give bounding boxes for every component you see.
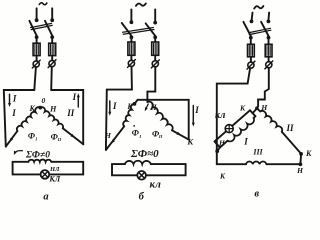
svg-text:б: б [139,192,145,203]
wire top left v [251,13,254,20]
switch S1 top contacts a [35,18,39,22]
switch S3 bottom contacts v [249,36,253,40]
node 0 junction dot a [38,106,42,110]
svg-text:II: II [285,123,294,133]
svg-text:I: I [72,92,77,102]
terminal clamp left b [128,60,134,66]
terminal clamp right b [152,61,158,67]
svg-text:Н: Н [296,166,304,175]
svg-text:I: I [34,137,37,142]
switch S3 blades v [243,22,250,36]
junction dot left v [215,149,219,153]
svg-text:II: II [66,108,75,118]
switch S3 crossbar v [249,28,271,32]
stub box to top vertex v [253,108,257,113]
switch S1 blades a [29,21,36,36]
wire to fuses v [250,38,252,45]
winding III coil v [246,162,266,165]
current arrow left b [109,101,111,113]
supply conductor left b [106,90,132,150]
wire K-II to H-III v [299,154,302,164]
switch S1 crossbar a [31,23,52,27]
svg-text:К: К [126,102,133,111]
winding II inner lead arrow b [145,104,148,110]
wire fuse to terminal b [130,55,132,60]
winding I lead a [6,131,18,147]
AC source symbol diagram a [39,3,47,5]
wire top right a [51,8,53,18]
svg-text:0: 0 [42,96,46,105]
control lamp KL b [137,171,146,180]
svg-text:I: I [112,101,117,111]
svg-text:К: К [305,149,312,158]
svg-text:кл: кл [215,110,225,121]
terminal clamp left a [33,61,39,67]
wire to fuses a [36,37,38,43]
svg-text:Н: Н [149,103,157,112]
switch S2 crossbar b [123,28,154,33]
secondary loop rectangle b [112,164,186,175]
switch S1 bottom contacts a [35,35,39,39]
fuse F1 v [248,44,255,57]
terminal clamp left v [248,62,254,68]
svg-text:I: I [138,134,141,139]
winding I lead b [106,126,124,150]
svg-text:а: а [43,192,48,203]
winding I coil v [228,118,254,142]
svg-text:К: К [239,104,246,113]
svg-text:I: I [243,136,248,146]
bottom conductor with winding III v [217,163,301,165]
terminal clamp right v [266,62,272,68]
svg-text:II: II [158,134,163,139]
switch S2 top contacts b [130,20,134,24]
wire to fuses b [130,37,132,42]
svg-text:К: К [186,137,194,147]
winding II coil a [40,107,63,128]
top vertex junction dot v [255,106,259,110]
wire fuse to terminal a [36,56,38,61]
winding II lead v [282,132,301,154]
switch S2 blades b [122,23,132,36]
control lamp KL a [41,170,50,179]
secondary pickup coil a [28,160,51,162]
winding II lead a [63,128,84,144]
secondary pickup coil b [125,161,151,164]
svg-text:ΣФ≈0: ΣФ≈0 [130,148,159,160]
winding II coil v [257,108,260,111]
flux arrow a [15,151,23,154]
wire terminal to H of winding I v [217,68,250,164]
svg-text:Н: Н [218,138,226,147]
wire terminal down right v [258,68,269,107]
current arrow right a [77,96,79,107]
wire top right v [268,13,271,20]
svg-text:К: К [28,104,35,113]
winding II coil b [147,102,172,131]
fuse F1 b [128,42,135,55]
svg-text:кл: кл [149,179,161,191]
junction dot K b [133,102,137,106]
supply loop conductor left a [4,90,35,147]
wire terminal down right b [147,67,155,102]
AC source symbol diagram v [254,6,263,9]
svg-text:Н: Н [49,105,57,114]
svg-text:II: II [57,137,62,142]
svg-text:в: в [254,189,259,200]
secondary loop rectangle a [13,162,84,175]
fuse F2 v [265,44,272,57]
svg-text:К: К [219,172,226,181]
switch S2 bottom contacts b [130,35,134,39]
svg-text:I: I [12,94,17,104]
supply loop conductor right a [51,90,83,144]
switch S3 top contacts v [250,20,254,24]
winding I coil a [17,107,40,131]
svg-text:Н: Н [104,131,112,140]
winding I coil b [123,104,134,126]
wire top right b [154,10,156,21]
jumper wire K to K b [134,100,188,140]
svg-text:КЛ: КЛ [48,174,60,183]
terminal clamp right a [49,61,55,67]
fuse F1 a [33,43,40,55]
wire terminal to winding circuit left a [34,67,36,90]
svg-text:III: III [252,148,263,157]
svg-text:I: I [11,108,16,118]
svg-text:ΣФ≠0: ΣФ≠0 [25,150,50,160]
wire fuse to terminal v [250,57,252,62]
current arrow right b [192,106,194,125]
svg-text:Н: Н [260,103,268,112]
svg-text:I: I [194,105,199,115]
wire top left b [130,10,132,21]
junction dot bottom right v [299,162,303,166]
winding II lead b [172,130,189,139]
wire terminal down left b [131,67,133,90]
junction dot K-II v [299,152,303,156]
svg-text:НЛ: НЛ [49,166,60,173]
control lamp kl v [225,125,233,133]
lamp loop box around winding I v [215,110,256,147]
AC source symbol diagram b [136,3,146,6]
fuse F2 a [49,43,56,55]
current arrow left a [9,94,11,104]
stub to lamp loop corner v [217,148,220,152]
fuse F2 b [152,42,159,55]
wire terminal to winding circuit right a [50,67,53,90]
wire top left a [36,8,38,18]
